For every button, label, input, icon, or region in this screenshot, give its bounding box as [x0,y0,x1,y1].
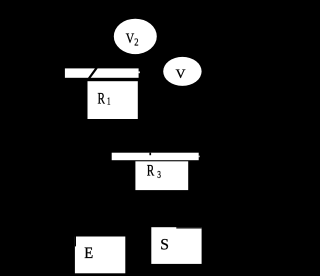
svg-text:E: E [84,246,93,262]
svg-text:V: V [176,66,186,81]
svg-text:S: S [160,236,169,253]
